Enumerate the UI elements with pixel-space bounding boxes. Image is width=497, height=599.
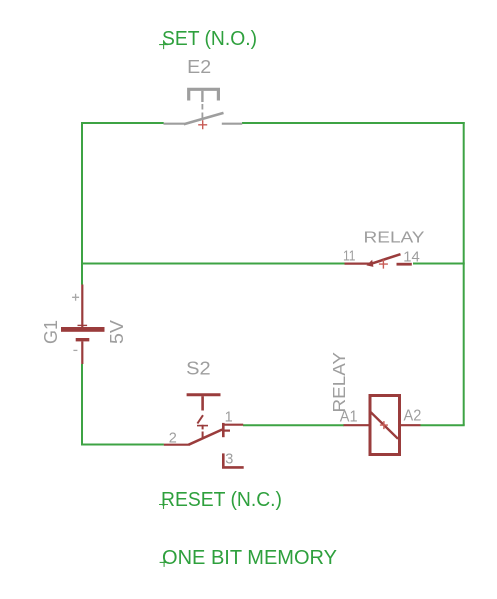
svg-text:3: 3 xyxy=(225,451,233,467)
svg-text:G1: G1 xyxy=(41,320,61,344)
svg-text:SET (N.O.): SET (N.O.) xyxy=(162,28,257,50)
svg-text:RELAY: RELAY xyxy=(329,352,349,413)
svg-text:E2: E2 xyxy=(187,56,211,77)
svg-text:1: 1 xyxy=(225,409,233,425)
svg-text:RESET (N.C.): RESET (N.C.) xyxy=(161,489,282,511)
svg-text:2: 2 xyxy=(169,431,177,447)
svg-text:A2: A2 xyxy=(404,408,422,425)
svg-text:S2: S2 xyxy=(186,357,211,378)
svg-text:14: 14 xyxy=(403,249,420,265)
svg-text:5V: 5V xyxy=(107,320,127,344)
svg-text:RELAY: RELAY xyxy=(364,229,425,246)
svg-text:11: 11 xyxy=(343,248,356,264)
svg-text:ONE BIT MEMORY: ONE BIT MEMORY xyxy=(162,547,337,569)
